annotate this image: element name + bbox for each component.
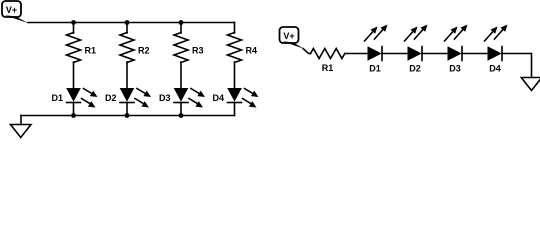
wire branch1 mid stub: [73, 62, 75, 89]
wire branch1 top stub: [73, 23, 75, 34]
wire branch3 mid stub: [180, 62, 182, 89]
wire D1 to D2: [382, 53, 408, 55]
power flag V+ (right circuit): [280, 27, 305, 49]
power flag V+ (left circuit): [2, 1, 29, 23]
wire top rail (left circuit): [28, 22, 235, 24]
LED D2 (right circuit): [405, 25, 428, 61]
LED D4: [227, 88, 258, 108]
svg-text:R2: R2: [138, 46, 150, 56]
LED D3 (right circuit): [445, 25, 468, 61]
wire ground drop (left circuit): [20, 116, 22, 125]
svg-text:D2: D2: [105, 93, 117, 103]
svg-text:R1: R1: [322, 63, 334, 73]
wire R1 to D1: [345, 53, 368, 55]
LED D3: [174, 88, 205, 108]
wire branch2 mid stub: [126, 62, 128, 89]
wire from V+ to R1 (right circuit): [303, 49, 311, 54]
resistor R4: [228, 33, 242, 63]
svg-text:D2: D2: [409, 64, 421, 74]
svg-text:V+: V+: [6, 5, 17, 15]
svg-text:D4: D4: [489, 64, 501, 74]
resistor R2: [120, 33, 134, 63]
wire D3 to D4: [462, 53, 488, 55]
LED D1 (right circuit): [365, 25, 388, 61]
wire branch3 top stub: [180, 23, 182, 34]
LED D1: [66, 88, 97, 108]
node junction bottom rail branch1: [71, 113, 76, 118]
wire D2 to D3: [422, 53, 448, 55]
resistor R1 (right circuit): [311, 49, 345, 59]
svg-text:D4: D4: [212, 93, 224, 103]
svg-text:D1: D1: [51, 93, 63, 103]
svg-text:R4: R4: [246, 46, 258, 56]
node junction top rail branch1: [71, 20, 76, 25]
wire branch2 top stub: [126, 23, 128, 34]
wire branch2 bottom stub: [126, 103, 128, 116]
svg-text:R3: R3: [192, 46, 204, 56]
svg-text:R1: R1: [85, 46, 97, 56]
wire bottom rail (left circuit): [21, 115, 235, 117]
node junction top rail branch2: [125, 20, 130, 25]
svg-text:V+: V+: [283, 31, 294, 41]
wire branch3 bottom stub: [180, 103, 182, 116]
LED D2: [120, 88, 151, 108]
ground (left circuit): [11, 125, 32, 138]
resistor R3: [174, 33, 188, 63]
wire branch4 mid stub: [234, 62, 236, 89]
resistor R1: [67, 33, 81, 63]
svg-text:D1: D1: [369, 64, 381, 74]
LED D4 (right circuit): [485, 25, 508, 61]
wire branch4 bottom stub: [234, 103, 236, 116]
svg-text:D3: D3: [449, 64, 461, 74]
svg-text:D3: D3: [159, 93, 171, 103]
wire branch1 bottom stub: [73, 103, 75, 116]
ground (right circuit): [521, 78, 540, 91]
wire D4 to ground (right circuit): [502, 54, 532, 78]
node junction bottom rail branch2: [125, 113, 130, 118]
wire branch4 top stub: [234, 23, 236, 34]
node junction top rail branch3: [179, 20, 184, 25]
node junction bottom rail branch3: [179, 113, 184, 118]
